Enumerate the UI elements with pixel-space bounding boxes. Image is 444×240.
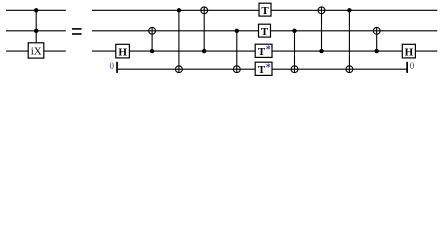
gate iX box	[28, 43, 44, 58]
target XOR c4 on ancilla	[233, 66, 240, 73]
svg-text:T: T	[258, 46, 266, 58]
node ancilla termination bar	[406, 62, 408, 73]
svg-text:0: 0	[410, 61, 415, 71]
target XOR c1 on R-q1	[149, 27, 156, 34]
wire L-q2	[6, 50, 66, 52]
wire R-q1	[92, 30, 437, 32]
svg-text:0: 0	[109, 61, 114, 71]
wire R-ancilla	[118, 68, 408, 70]
svg-text:T: T	[261, 26, 269, 38]
control dot c1 on R-q2	[150, 49, 154, 53]
svg-text:T: T	[261, 5, 269, 17]
svg-text:H: H	[405, 46, 414, 58]
control dot c2 on R-q0	[177, 8, 181, 12]
control dot c6 on R-q1	[292, 29, 296, 33]
wire L-q0	[6, 9, 66, 11]
target XOR c8 on ancilla	[346, 66, 353, 73]
control dot c7 on R-q2	[319, 49, 323, 53]
target XOR c3 on R-q0	[201, 7, 208, 14]
wire vertical c6	[294, 31, 296, 73]
wire vertical c4	[236, 31, 238, 73]
target XOR c2 on ancilla	[176, 66, 183, 73]
target XOR c7 on R-q0	[318, 7, 325, 14]
control dot on L-q1	[34, 29, 38, 33]
wire vertical c2	[178, 10, 180, 72]
wire vertical c9	[376, 27, 378, 51]
control dot c4 on R-q1	[235, 29, 239, 33]
gate T* box on R-q2	[255, 44, 272, 58]
svg-text:*: *	[266, 45, 271, 56]
svg-text:iX: iX	[31, 46, 42, 58]
node ancilla preparation bar	[116, 62, 118, 73]
wire R-q2	[92, 50, 437, 52]
wire vertical c3	[203, 7, 205, 51]
control dot c3 on R-q2	[202, 49, 206, 53]
equals sign	[72, 28, 82, 35]
gate T box on R-q1	[259, 24, 271, 38]
target XOR c6 on ancilla	[291, 66, 298, 73]
svg-text:*: *	[266, 63, 271, 74]
wire vertical c1	[151, 27, 153, 51]
svg-text:T: T	[258, 64, 266, 76]
gate T box on R-q0	[259, 3, 271, 17]
control dot c8 on R-q0	[347, 8, 351, 12]
control dot on L-q0	[34, 8, 38, 12]
wire L-q1	[6, 30, 66, 32]
wire vertical c7	[321, 7, 323, 51]
wire vertical c8	[348, 10, 350, 72]
wire R-q0	[92, 9, 437, 11]
gate T* box on ancilla	[255, 62, 272, 76]
gate H2 box on R-q2	[402, 44, 415, 58]
svg-text:H: H	[118, 46, 127, 58]
gate H1 box on R-q2	[116, 44, 130, 58]
wire vertical control line left	[35, 10, 37, 43]
target XOR c9 on R-q1	[373, 27, 380, 34]
control dot c9 on R-q2	[375, 49, 379, 53]
